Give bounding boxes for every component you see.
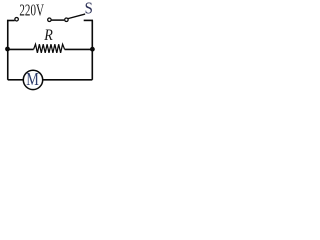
wire: middle branch left lead bbox=[8, 48, 34, 50]
node: right junction dot bbox=[90, 47, 95, 52]
svg-text:S: S bbox=[85, 0, 93, 18]
wire: middle branch right lead bbox=[65, 48, 93, 50]
node: left junction dot bbox=[5, 47, 10, 52]
terminal: 220V left bbox=[15, 17, 19, 21]
wire: between 220V right terminal and switch pivot bbox=[52, 19, 65, 21]
wire: left vertical bbox=[7, 20, 9, 80]
wire: bottom right segment bbox=[43, 79, 93, 81]
switch S blade (open) bbox=[68, 14, 84, 18]
svg-text:R: R bbox=[43, 27, 53, 44]
motor M circle bbox=[23, 70, 42, 89]
wire: right vertical bbox=[91, 20, 93, 79]
switch S pivot terminal bbox=[65, 18, 69, 22]
wire: bottom left segment bbox=[8, 79, 24, 81]
resistor R zigzag bbox=[34, 44, 65, 53]
svg-text:M: M bbox=[26, 69, 39, 89]
terminal: 220V right bbox=[48, 18, 52, 22]
wire: switch fixed contact to top-right corner bbox=[84, 19, 93, 21]
wire: top-left segment to 220V left terminal bbox=[7, 20, 15, 22]
svg-text:220V: 220V bbox=[19, 1, 44, 20]
